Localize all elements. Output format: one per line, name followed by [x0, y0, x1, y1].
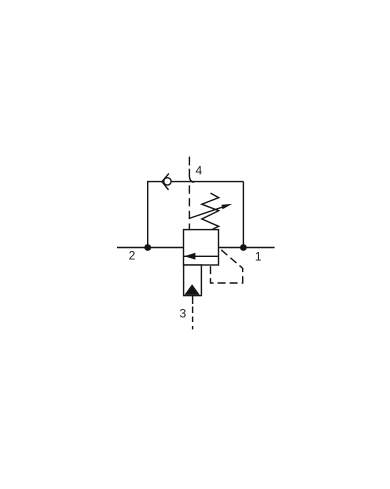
wire: top line through check valve — [147, 181, 243, 183]
pilot section box — [184, 265, 202, 296]
wire: dashed pilot line below top wire to valve — [188, 185, 190, 229]
wire: right vertical riser — [242, 182, 244, 248]
node: junction dot port 1 — [240, 244, 247, 251]
valve body U1 — [184, 230, 219, 265]
svg-text:2: 2 — [129, 249, 136, 263]
wire: port 3 dashed line — [192, 296, 194, 330]
svg-text:1: 1 — [255, 249, 262, 263]
wire: dashed drain loop — [211, 248, 243, 283]
spring — [202, 193, 219, 229]
adjustment arrow shaft — [189, 206, 226, 218]
wire: dashed pilot line to port 4 (upper) — [189, 157, 194, 183]
wire: left vertical riser — [147, 182, 149, 248]
pilot relief triangle — [184, 284, 199, 295]
adjustment arrowhead — [222, 204, 233, 209]
check valve CV1 — [162, 173, 171, 190]
flow arrow (left) in valve — [184, 253, 195, 260]
node: junction dot port 2 — [144, 244, 151, 251]
svg-text:4: 4 — [196, 163, 203, 177]
wire: main line port2-port1 — [117, 247, 275, 249]
svg-text:3: 3 — [179, 306, 186, 320]
